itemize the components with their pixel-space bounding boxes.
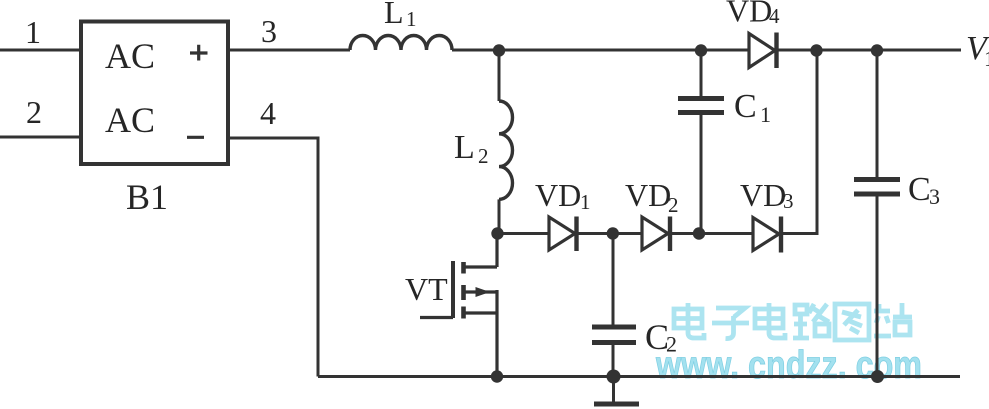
diode VD4 [749, 34, 775, 68]
source lead [464, 311, 497, 314]
wire node to VD1 [497, 232, 549, 235]
capacitor C1 [700, 50, 703, 98]
plus sign in B1 [190, 45, 208, 61]
node C2 branch [607, 227, 619, 239]
svg-text:1: 1 [984, 46, 989, 71]
node VD4 right [810, 44, 822, 56]
wire L2 top [498, 50, 501, 101]
svg-text:3: 3 [929, 184, 940, 209]
svg-text:C: C [734, 88, 757, 125]
transistor VT mosfet [420, 234, 497, 377]
top wire after L1 [452, 49, 749, 52]
channel segment source [461, 307, 466, 319]
svg-text:L: L [454, 129, 475, 166]
svg-text:4: 4 [769, 4, 780, 28]
diode VD2 [642, 217, 668, 250]
wire pin4 [228, 138, 318, 377]
diode VD3 [753, 218, 779, 251]
svg-text:VD: VD [535, 177, 581, 213]
top wire after VD4 [778, 49, 961, 52]
svg-text:C: C [908, 171, 931, 208]
inductor L2 [499, 101, 513, 199]
gate line [451, 261, 455, 318]
svg-text:4: 4 [260, 95, 276, 131]
wire pin3 [228, 49, 350, 52]
channel segment body [461, 285, 466, 300]
node at L2 top [493, 44, 505, 56]
channel segment drain [461, 262, 466, 274]
wire VD3 to corner up [781, 50, 817, 234]
wire node to VD2 [613, 232, 642, 235]
wire VD1 to node [577, 232, 614, 235]
svg-text:2: 2 [668, 193, 679, 217]
node C1 top [695, 44, 707, 56]
wire node to VD3 [699, 232, 753, 235]
子 [712, 308, 749, 339]
watermark line 1: 电子电路图站 [674, 303, 912, 340]
svg-text:AC: AC [105, 36, 155, 76]
drain lead [464, 234, 497, 268]
capacitor C2 [612, 234, 615, 328]
svg-text:L: L [384, 0, 404, 30]
svg-text:1: 1 [760, 102, 771, 127]
node C3 bottom [871, 370, 884, 383]
电 [688, 303, 704, 338]
svg-text:3: 3 [261, 13, 277, 49]
svg-text:VD: VD [726, 0, 772, 29]
svg-text:2: 2 [26, 94, 42, 130]
node C3 top [871, 44, 883, 56]
wire L2 bottom [498, 199, 501, 233]
transformer B1 box [81, 22, 228, 165]
diode VD1 [549, 217, 575, 250]
inductor L1 [350, 36, 452, 51]
站 [874, 304, 891, 336]
gate lead [420, 316, 453, 319]
路 [793, 305, 809, 338]
wire VD2 to node [670, 232, 699, 235]
svg-text:B1: B1 [126, 177, 168, 217]
source/body vertical [495, 290, 498, 377]
svg-text:1: 1 [25, 14, 41, 50]
node L2 / diode row [491, 227, 503, 239]
minus sign in B1 [187, 136, 204, 139]
body lead with arrow [464, 290, 497, 293]
svg-text:AC: AC [105, 100, 155, 140]
svg-text:1: 1 [406, 7, 417, 31]
svg-text:VT: VT [405, 271, 448, 307]
ground stub [612, 377, 615, 403]
bottom wire [318, 375, 960, 378]
电 [769, 303, 785, 338]
node C1 branch bottom [693, 227, 705, 239]
svg-text:3: 3 [783, 189, 794, 213]
wire pin2 [0, 136, 81, 139]
svg-text:2: 2 [666, 332, 677, 357]
node C2 bottom [607, 370, 621, 384]
svg-text:1: 1 [580, 190, 591, 214]
svg-text:VD: VD [740, 177, 786, 213]
capacitor C3 [876, 50, 879, 179]
svg-text:2: 2 [478, 144, 489, 168]
图 [835, 304, 869, 340]
svg-text:VD: VD [625, 177, 671, 213]
wire pin1 [0, 49, 81, 52]
node VT bottom [491, 370, 503, 382]
